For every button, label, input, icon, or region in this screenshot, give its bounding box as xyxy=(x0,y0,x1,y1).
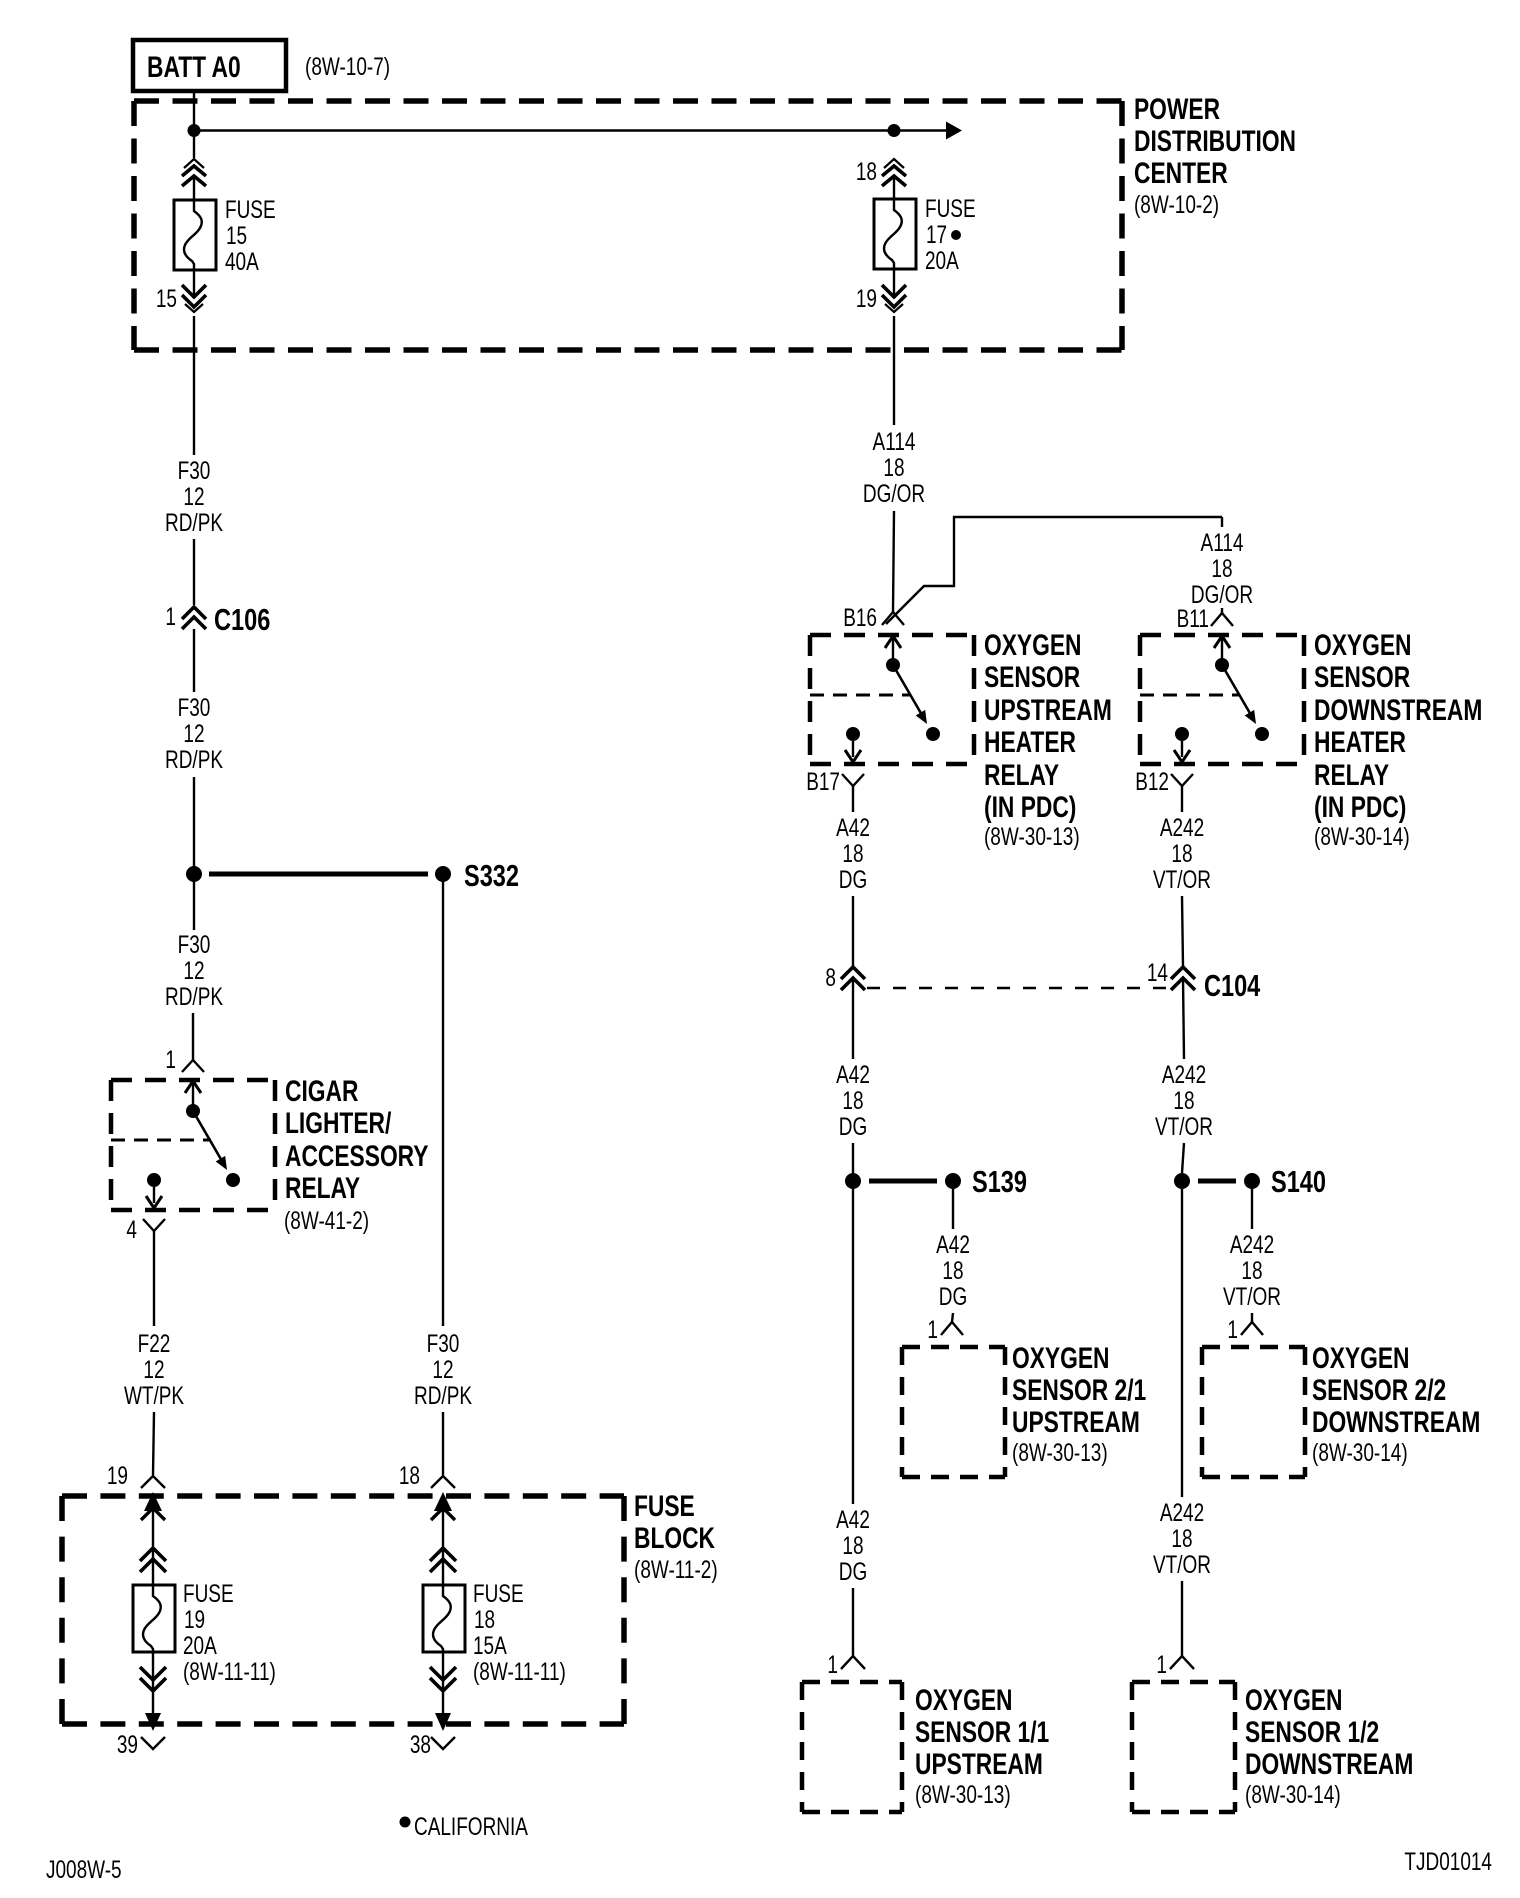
wire below C104 left xyxy=(852,978,854,1059)
svg-text:14: 14 xyxy=(1147,958,1168,986)
connector C104 left chevrons xyxy=(841,967,865,990)
svg-text:A42: A42 xyxy=(836,813,870,841)
svg-text:FUSE: FUSE xyxy=(183,1579,234,1607)
svg-text:39: 39 xyxy=(117,1730,138,1758)
label FUSE 18 15A (8W-11-11) xyxy=(473,1579,566,1685)
svg-text:15A: 15A xyxy=(473,1631,507,1659)
connector fork B16 xyxy=(882,612,904,625)
svg-text:HEATER: HEATER xyxy=(984,725,1076,759)
svg-text:UPSTREAM: UPSTREAM xyxy=(984,693,1112,727)
upstream relay output arrow down xyxy=(845,741,861,762)
connector fork pin 1 at relay xyxy=(182,1060,204,1072)
svg-text:SENSOR: SENSOR xyxy=(1314,660,1410,694)
svg-text:F30: F30 xyxy=(427,1329,460,1357)
connector fork pin 1 sensor 2/2 xyxy=(1241,1322,1263,1335)
svg-text:F30: F30 xyxy=(178,693,211,721)
svg-text:F22: F22 xyxy=(138,1329,171,1357)
svg-text:(8W-41-2): (8W-41-2) xyxy=(284,1206,369,1234)
wire A42 label block 4 xyxy=(836,1505,870,1585)
svg-text:LIGHTER/: LIGHTER/ xyxy=(285,1106,392,1140)
upstream relay thrown contact dot xyxy=(926,727,940,741)
svg-text:A42: A42 xyxy=(836,1060,870,1088)
relay internal dashed divider xyxy=(111,1139,211,1142)
downstream relay common dot xyxy=(1215,658,1229,672)
svg-text:CENTER: CENTER xyxy=(1134,156,1228,190)
svg-text:F30: F30 xyxy=(178,930,211,958)
relay switch arm with arrowhead xyxy=(193,1111,227,1170)
label CIGAR LIGHTER/ACCESSORY RELAY xyxy=(284,1074,429,1235)
wire F30 label block 2 xyxy=(165,693,223,773)
wire to oxygen sensor 1/1 xyxy=(852,1588,854,1656)
svg-text:(8W-30-14): (8W-30-14) xyxy=(1314,822,1410,850)
label FUSE 15 40A xyxy=(225,195,276,275)
svg-text:1: 1 xyxy=(927,1315,938,1343)
connector fork pin 1 sensor 2/1 xyxy=(941,1322,963,1335)
wire A242 label block 2 xyxy=(1155,1060,1213,1140)
svg-text:17: 17 xyxy=(926,220,947,248)
oxygen sensor 1/2 dashed box xyxy=(1132,1682,1235,1812)
svg-text:(8W-10-2): (8W-10-2) xyxy=(1134,190,1219,218)
wire branch to downstream relay xyxy=(886,517,1222,624)
splice S140 xyxy=(1174,1164,1326,1199)
upstream relay common dot xyxy=(886,658,900,672)
upstream relay arrow up xyxy=(885,636,901,665)
wire F22 to fuse block xyxy=(153,1412,154,1475)
svg-text:CALIFORNIA: CALIFORNIA xyxy=(414,1812,528,1840)
svg-text:18: 18 xyxy=(942,1256,963,1284)
wire S139 left down xyxy=(852,1189,854,1504)
downstream relay output arrow down xyxy=(1174,741,1190,762)
downstream relay output dot xyxy=(1175,727,1189,741)
label OXYGEN SENSOR DOWNSTREAM HEATER RELAY xyxy=(1314,628,1482,851)
label FUSE BLOCK (8W-11-2) xyxy=(634,1489,718,1584)
wire F30 label block 1 xyxy=(165,456,223,536)
wire to oxygen sensor 1/2 xyxy=(1181,1581,1183,1656)
wire A242 label block 1 xyxy=(1153,813,1211,893)
svg-text:(8W-30-14): (8W-30-14) xyxy=(1245,1780,1341,1808)
svg-text:FUSE: FUSE xyxy=(634,1489,695,1523)
wire A114 label block right xyxy=(1191,528,1253,608)
svg-text:20A: 20A xyxy=(925,246,959,274)
connector chevrons above fuse 19 xyxy=(140,1548,166,1572)
svg-text:(8W-30-13): (8W-30-13) xyxy=(915,1780,1011,1808)
node california note bullet xyxy=(400,1817,411,1828)
svg-text:A242: A242 xyxy=(1230,1230,1274,1258)
connector fork pin 1 sensor 1/1 xyxy=(841,1656,865,1669)
svg-text:OXYGEN: OXYGEN xyxy=(1245,1683,1342,1717)
svg-text:(8W-30-13): (8W-30-13) xyxy=(1012,1438,1108,1466)
fuse 19 exit arrow down xyxy=(141,1713,165,1749)
svg-text:OXYGEN: OXYGEN xyxy=(915,1683,1012,1717)
wire fuse 15 to F30 label xyxy=(193,316,195,455)
svg-text:18: 18 xyxy=(842,839,863,867)
svg-text:RELAY: RELAY xyxy=(285,1171,360,1205)
fuse F18 15A body xyxy=(423,1585,465,1652)
wire S139 branch down xyxy=(952,1189,954,1229)
wire to S140 xyxy=(1182,1143,1184,1173)
wire to cigar relay xyxy=(192,1013,194,1060)
svg-text:(8W-30-13): (8W-30-13) xyxy=(984,822,1080,850)
wire A114 down to B16 xyxy=(893,511,894,612)
svg-text:B16: B16 xyxy=(843,603,877,631)
upstream relay switch arm xyxy=(893,665,927,724)
fuse F15 40A body xyxy=(174,200,216,270)
fuse 18 entry arrow up xyxy=(431,1492,455,1585)
svg-text:SENSOR 1/1: SENSOR 1/1 xyxy=(915,1715,1049,1749)
svg-text:4: 4 xyxy=(126,1215,137,1243)
connector fork B12 xyxy=(1171,774,1193,786)
wire B12 down xyxy=(1181,786,1183,812)
svg-text:RD/PK: RD/PK xyxy=(165,745,223,773)
wire below C104 right xyxy=(1183,978,1184,1059)
svg-text:1: 1 xyxy=(165,1045,176,1073)
fuse block dashed box xyxy=(62,1496,624,1724)
svg-text:DOWNSTREAM: DOWNSTREAM xyxy=(1245,1747,1413,1781)
wire to S332 xyxy=(193,777,195,874)
wire S140 left down xyxy=(1181,1189,1183,1497)
svg-text:OXYGEN: OXYGEN xyxy=(1312,1341,1409,1375)
svg-text:18: 18 xyxy=(1211,554,1232,582)
cigar lighter/accessory relay dashed box xyxy=(111,1080,275,1210)
svg-text:C104: C104 xyxy=(1204,968,1261,1003)
svg-text:(8W-11-2): (8W-11-2) xyxy=(634,1555,718,1583)
svg-text:(8W-11-11): (8W-11-11) xyxy=(473,1657,566,1685)
oxygen sensor downstream heater relay dashed box xyxy=(1140,635,1304,764)
svg-text:A114: A114 xyxy=(873,427,916,455)
wire A42 label block 2 xyxy=(836,1060,870,1140)
connector fork pin 1 sensor 1/2 xyxy=(1170,1656,1194,1669)
relay thrown contact dot xyxy=(226,1173,240,1187)
connector C104 right chevrons xyxy=(1171,967,1195,990)
svg-text:38: 38 xyxy=(410,1730,431,1758)
connector fork B17 xyxy=(842,774,864,786)
svg-text:RELAY: RELAY xyxy=(1314,758,1389,792)
svg-text:A242: A242 xyxy=(1160,1498,1204,1526)
svg-text:SENSOR: SENSOR xyxy=(984,660,1080,694)
svg-text:12: 12 xyxy=(183,956,204,984)
svg-text:A42: A42 xyxy=(836,1505,870,1533)
svg-text:18: 18 xyxy=(399,1461,420,1489)
svg-text:20A: 20A xyxy=(183,1631,217,1659)
svg-text:A242: A242 xyxy=(1162,1060,1206,1088)
wire horizontal bus to fuse 17 xyxy=(194,129,894,131)
svg-text:HEATER: HEATER xyxy=(1314,725,1406,759)
svg-text:RD/PK: RD/PK xyxy=(414,1381,472,1409)
svg-text:BATT A0: BATT A0 xyxy=(147,50,241,84)
svg-text:15: 15 xyxy=(156,284,177,312)
svg-text:18: 18 xyxy=(883,453,904,481)
svg-text:UPSTREAM: UPSTREAM xyxy=(915,1747,1043,1781)
svg-text:VT/OR: VT/OR xyxy=(1153,865,1211,893)
svg-text:12: 12 xyxy=(143,1355,164,1383)
svg-text:B11: B11 xyxy=(1177,604,1209,632)
svg-text:S140: S140 xyxy=(1271,1164,1326,1199)
svg-text:FUSE: FUSE xyxy=(925,194,976,222)
splice S332 xyxy=(186,858,519,893)
svg-text:DG: DG xyxy=(839,865,867,893)
relay common contact dot xyxy=(186,1104,200,1118)
connector chevrons below fuse 15 xyxy=(182,270,206,312)
oxygen sensor 1/1 dashed box xyxy=(802,1682,902,1812)
wire A242 to C104 xyxy=(1182,896,1183,967)
connector chevrons above fuse 17 xyxy=(882,159,906,186)
svg-text:(8W-30-14): (8W-30-14) xyxy=(1312,1438,1408,1466)
fuse 19 entry arrow up xyxy=(141,1492,165,1585)
wire below S332 right branch xyxy=(442,874,444,1326)
svg-text:OXYGEN: OXYGEN xyxy=(1012,1341,1109,1375)
node splice junction at fuse 15 xyxy=(188,124,201,137)
downstream relay switch arm xyxy=(1222,665,1256,724)
svg-text:(8W-11-11): (8W-11-11) xyxy=(183,1657,276,1685)
wire A42 label block 1 xyxy=(836,813,870,893)
svg-text:12: 12 xyxy=(183,482,204,510)
label FUSE 17 20A with california dot xyxy=(925,194,976,274)
svg-text:18: 18 xyxy=(1171,1524,1192,1552)
svg-text:SENSOR 2/1: SENSOR 2/1 xyxy=(1012,1373,1146,1407)
svg-text:A114: A114 xyxy=(1201,528,1244,556)
wire fuse 17 down to A114 label xyxy=(893,316,895,425)
splice S139 xyxy=(845,1164,1027,1199)
downstream relay internal dashed divider xyxy=(1140,694,1240,697)
svg-text:(IN PDC): (IN PDC) xyxy=(1314,790,1406,824)
node junction at fuse 17 xyxy=(888,124,901,137)
oxygen sensor 2/2 dashed box xyxy=(1202,1347,1305,1477)
svg-text:19: 19 xyxy=(184,1605,205,1633)
label OXYGEN SENSOR UPSTREAM HEATER RELAY xyxy=(984,628,1112,851)
svg-text:B12: B12 xyxy=(1135,767,1169,795)
wire to oxygen sensor 2/1 xyxy=(952,1313,953,1322)
downstream relay arrow up xyxy=(1214,636,1230,665)
svg-text:DOWNSTREAM: DOWNSTREAM xyxy=(1314,693,1482,727)
svg-text:POWER: POWER xyxy=(1134,92,1220,126)
wire into fuse 15 xyxy=(193,177,195,200)
svg-text:C106: C106 xyxy=(214,602,270,637)
wire to S139 xyxy=(852,1143,854,1173)
wire to fuse block right xyxy=(442,1412,444,1475)
wire into fuse 17 xyxy=(893,177,895,199)
fuse 18 exit arrow down xyxy=(431,1713,455,1749)
svg-text:OXYGEN: OXYGEN xyxy=(1314,628,1411,662)
svg-text:(IN PDC): (IN PDC) xyxy=(984,790,1076,824)
svg-text:B17: B17 xyxy=(806,767,840,795)
wire A42 to C104 xyxy=(852,896,854,967)
svg-text:DG/OR: DG/OR xyxy=(863,479,925,507)
svg-text:SENSOR 1/2: SENSOR 1/2 xyxy=(1245,1715,1379,1749)
oxygen sensor upstream heater relay dashed box xyxy=(810,635,974,764)
svg-text:12: 12 xyxy=(183,719,204,747)
svg-text:J008W-5: J008W-5 xyxy=(46,1855,122,1883)
svg-text:FUSE: FUSE xyxy=(473,1579,524,1607)
svg-text:DOWNSTREAM: DOWNSTREAM xyxy=(1312,1405,1480,1439)
connector fork B11 xyxy=(1211,613,1233,626)
label OXYGEN SENSOR 2/1 UPSTREAM xyxy=(1012,1341,1146,1467)
svg-text:SENSOR 2/2: SENSOR 2/2 xyxy=(1312,1373,1446,1407)
wire from BATT A0 down into PDC xyxy=(193,91,195,158)
svg-text:8: 8 xyxy=(825,963,836,991)
wire below S332 left xyxy=(193,874,195,930)
svg-text:1: 1 xyxy=(165,602,176,630)
oxygen sensor 2/1 dashed box xyxy=(902,1347,1005,1477)
svg-text:A42: A42 xyxy=(936,1230,970,1258)
connector fork below relay pin 4 xyxy=(143,1219,165,1231)
power distribution center dashed box xyxy=(134,101,1122,350)
svg-text:F30: F30 xyxy=(178,456,211,484)
connector chevrons below fuse 18 xyxy=(430,1652,456,1713)
svg-text:UPSTREAM: UPSTREAM xyxy=(1012,1405,1140,1439)
svg-text:A242: A242 xyxy=(1160,813,1204,841)
connector C106 chevrons xyxy=(182,607,206,629)
relay output arrow down xyxy=(146,1187,162,1208)
wire A42 label block 3 xyxy=(936,1230,970,1310)
svg-text:TJD01014: TJD01014 xyxy=(1404,1847,1492,1875)
wire to C106 xyxy=(193,539,195,605)
svg-text:18: 18 xyxy=(1173,1086,1194,1114)
wire relay to F22 label xyxy=(153,1231,155,1326)
label POWER DISTRIBUTION CENTER (8W-10-2) xyxy=(1134,92,1296,219)
svg-text:RD/PK: RD/PK xyxy=(165,982,223,1010)
svg-text:BLOCK: BLOCK xyxy=(634,1521,715,1555)
svg-text:18: 18 xyxy=(842,1086,863,1114)
connector chevrons below fuse 17 xyxy=(882,269,906,312)
upstream relay output dot xyxy=(846,727,860,741)
svg-text:FUSE: FUSE xyxy=(225,195,276,223)
downstream relay thrown contact dot xyxy=(1255,727,1269,741)
relay output contact dot xyxy=(147,1173,161,1187)
svg-text:OXYGEN: OXYGEN xyxy=(984,628,1081,662)
svg-text:DISTRIBUTION: DISTRIBUTION xyxy=(1134,124,1296,158)
svg-text:18: 18 xyxy=(1241,1256,1262,1284)
wire B17 down xyxy=(852,786,854,812)
svg-text:RELAY: RELAY xyxy=(984,758,1059,792)
svg-text:19: 19 xyxy=(107,1461,128,1489)
connector chevrons above fuse 18 xyxy=(430,1548,456,1572)
wire F30 label block 3 xyxy=(165,930,223,1010)
connector fork pin 19 at fuse block xyxy=(141,1476,165,1488)
svg-text:12: 12 xyxy=(432,1355,453,1383)
svg-text:18: 18 xyxy=(474,1605,495,1633)
svg-text:DG: DG xyxy=(939,1282,967,1310)
fuse F17 20A body xyxy=(874,199,916,269)
svg-text:ACCESSORY: ACCESSORY xyxy=(285,1139,429,1173)
label OXYGEN SENSOR 1/1 UPSTREAM xyxy=(915,1683,1049,1809)
svg-text:1: 1 xyxy=(1156,1650,1167,1678)
svg-text:18: 18 xyxy=(842,1531,863,1559)
wire A242 label block 3 xyxy=(1223,1230,1281,1310)
wire arrow continuing right xyxy=(894,122,962,140)
svg-text:WT/PK: WT/PK xyxy=(124,1381,184,1409)
wire below C106 xyxy=(193,629,195,692)
svg-text:DG: DG xyxy=(839,1112,867,1140)
svg-text:DG: DG xyxy=(839,1557,867,1585)
wire F30 label block right branch xyxy=(414,1329,472,1409)
wire S140 branch down xyxy=(1251,1189,1253,1229)
connector C104 dashed link xyxy=(867,987,1170,989)
svg-text:1: 1 xyxy=(1227,1315,1238,1343)
connector fork pin 18 at fuse block xyxy=(431,1476,455,1488)
relay coil-side arrow up xyxy=(185,1081,201,1111)
svg-text:CIGAR: CIGAR xyxy=(285,1074,358,1108)
label FUSE 19 20A (8W-11-11) xyxy=(183,1579,276,1685)
connector chevrons above fuse 15 xyxy=(182,159,206,186)
wire A242 label block 4 xyxy=(1153,1498,1211,1578)
wire B11 short xyxy=(1221,608,1223,613)
label OXYGEN SENSOR 2/2 DOWNSTREAM xyxy=(1312,1341,1480,1467)
svg-text:S332: S332 xyxy=(464,858,519,893)
svg-text:18: 18 xyxy=(1171,839,1192,867)
svg-text:(8W-10-7): (8W-10-7) xyxy=(305,52,390,80)
svg-text:S139: S139 xyxy=(972,1164,1027,1199)
svg-text:19: 19 xyxy=(856,284,877,312)
svg-text:VT/OR: VT/OR xyxy=(1155,1112,1213,1140)
wire A114 label block left xyxy=(863,427,925,507)
node BATT A0 feed box xyxy=(133,40,286,91)
wire to oxygen sensor 2/2 xyxy=(1251,1313,1253,1322)
wire F22 label block xyxy=(124,1329,184,1409)
svg-text:40A: 40A xyxy=(225,247,259,275)
svg-text:15: 15 xyxy=(226,221,247,249)
connector chevrons below fuse 19 xyxy=(140,1652,166,1713)
svg-text:18: 18 xyxy=(856,157,877,185)
svg-text:RD/PK: RD/PK xyxy=(165,508,223,536)
svg-text:VT/OR: VT/OR xyxy=(1223,1282,1281,1310)
upstream relay internal dashed divider xyxy=(810,694,910,697)
svg-text:1: 1 xyxy=(827,1650,838,1678)
label OXYGEN SENSOR 1/2 DOWNSTREAM xyxy=(1245,1683,1413,1809)
fuse F19 20A body xyxy=(133,1585,175,1652)
svg-text:VT/OR: VT/OR xyxy=(1153,1550,1211,1578)
